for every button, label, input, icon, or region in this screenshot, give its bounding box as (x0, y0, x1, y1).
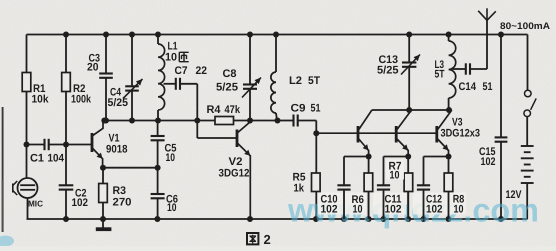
wire node B to V1 base (66, 144, 91, 146)
svg-text:10: 10 (454, 204, 464, 216)
node rail/L1 (155, 32, 161, 38)
svg-text:C9: C9 (291, 103, 306, 115)
node rail/C2 (63, 216, 69, 222)
svg-text:22: 22 (196, 65, 208, 77)
svg-text:102: 102 (72, 197, 89, 209)
wire C7 to base node drop (196, 84, 198, 121)
node rail/R7 (405, 216, 411, 222)
svg-text:C7: C7 (175, 65, 188, 77)
label R8 value (453, 194, 465, 216)
node V1 collector (101, 118, 107, 124)
svg-text:102: 102 (321, 204, 338, 216)
inductor L2 (271, 35, 320, 121)
svg-text:10: 10 (167, 202, 177, 214)
svg-text:80~100mA: 80~100mA (500, 21, 550, 32)
svg-text:47k: 47k (225, 104, 241, 116)
node rail/R8 (446, 216, 452, 222)
switch S (524, 90, 536, 116)
node V3a emitter (366, 154, 372, 160)
wire V3b emitter stub to C11 (384, 156, 409, 158)
wire battery to ground rail (526, 183, 528, 219)
svg-text:20: 20 (87, 62, 99, 74)
wire antenna feed (486, 20, 488, 69)
svg-text:5/25: 5/25 (216, 82, 238, 94)
node B (R2/C1/C2/V1-base) (63, 142, 69, 148)
node C3/tank (103, 118, 109, 124)
node V3c collector / L3 (446, 107, 452, 113)
node rail/C3 (103, 32, 109, 38)
node R4 left / C7 (194, 118, 200, 124)
svg-text:5/25: 5/25 (377, 65, 399, 77)
node V3b emitter (405, 154, 411, 160)
svg-text:5/25: 5/25 (108, 97, 129, 109)
transistor V3c (437, 110, 452, 157)
node L2 bottom / C9 (275, 118, 281, 124)
node V3b collector / C13 (406, 107, 412, 113)
capacitor C9 (278, 103, 321, 134)
resistor R1 (22, 35, 49, 145)
svg-text:3DG12: 3DG12 (219, 168, 250, 180)
node rail/C11 (381, 216, 387, 222)
svg-text:R3: R3 (113, 185, 127, 197)
label R7 value (389, 161, 402, 182)
node rail/R5 (313, 216, 319, 222)
wire V1 collector tank node line (103, 120, 278, 122)
node rail/R6 (366, 216, 372, 222)
microphone MIC (13, 145, 43, 220)
svg-text:V2: V2 (229, 156, 243, 168)
svg-text:100k: 100k (71, 94, 92, 106)
node rail/C13 (406, 32, 412, 38)
wire top supply rail (27, 34, 528, 36)
capacitor C14 (453, 63, 493, 93)
node rail/R3 (100, 216, 106, 222)
antenna (478, 11, 487, 20)
battery GB 12V (506, 146, 534, 201)
wire V3a emitter stub to C10 (344, 156, 369, 158)
svg-text:270: 270 (113, 197, 132, 209)
capacitor C5 (151, 121, 177, 168)
transistor V3a (358, 110, 372, 157)
label R6 value (352, 194, 365, 216)
svg-text:C1: C1 (30, 153, 44, 165)
wire V1 emitter to C5/C6 tap (103, 167, 158, 169)
watermark (0, 192, 539, 247)
node rail/L3 (446, 32, 452, 38)
capacitor C2 (59, 145, 88, 220)
svg-text:5T: 5T (308, 75, 320, 87)
label C11 value (385, 194, 402, 216)
variable capacitor C4 (108, 35, 143, 121)
wire switch to battery (526, 117, 528, 146)
ground (96, 219, 112, 231)
node C9 out / R5 / base bus (313, 130, 319, 136)
node rail/C4 (129, 32, 135, 38)
wire bottom ground rail (27, 218, 528, 220)
svg-text:51: 51 (311, 103, 321, 115)
node rail/R2 (63, 32, 69, 38)
resistor R6 (364, 157, 373, 220)
node C5/C6/V1-emitter (155, 165, 161, 171)
svg-text:10: 10 (390, 170, 400, 182)
svg-text:R4: R4 (207, 104, 222, 116)
caption figure glyph 图 (247, 233, 258, 244)
node rail/V2 emitter (247, 216, 253, 222)
capacitor C12 (417, 185, 430, 219)
svg-text:104: 104 (48, 153, 65, 165)
svg-text:10: 10 (165, 52, 177, 64)
svg-text:3DG12x3: 3DG12x3 (441, 128, 481, 140)
node L1/tank/C5 (155, 118, 161, 124)
svg-text:MIC: MIC (28, 199, 43, 209)
node rail/C12 (421, 216, 427, 222)
svg-text:10: 10 (166, 152, 176, 164)
capacitor C10 (337, 185, 350, 219)
wire drop to V2 base (196, 121, 198, 139)
svg-text:C14: C14 (459, 81, 477, 93)
svg-text:10k: 10k (32, 94, 50, 106)
wire V3 collector rail (372, 109, 449, 111)
node V2 collector / R4 right / C8 (247, 118, 253, 124)
capacitor C6 (151, 168, 178, 219)
svg-text:10: 10 (353, 204, 363, 216)
resistor R7 (404, 157, 413, 220)
node A (R1/MIC/C1 junction) (24, 142, 30, 148)
wire to switch (527, 35, 529, 91)
resistor R2 (62, 35, 92, 145)
transistor V3b (396, 110, 411, 157)
svg-text:5T: 5T (435, 69, 445, 81)
inductor L3 (435, 35, 456, 111)
node rail/C10 (341, 216, 347, 222)
svg-text:L2: L2 (289, 75, 302, 87)
node V3c emitter (446, 154, 452, 160)
svg-text:102: 102 (481, 156, 496, 168)
node rail/C15 (498, 32, 504, 38)
variable capacitor C8 (216, 35, 261, 121)
resistor R5 (293, 133, 321, 219)
wire V3c emitter stub to C12 (424, 156, 449, 158)
scan edge artifact left (2, 107, 4, 232)
capacitor C11 (377, 185, 390, 219)
transistor V1 (92, 121, 128, 168)
inductor L1 (158, 35, 178, 121)
node ground rail/C15 (498, 216, 504, 222)
resistor R3 (99, 168, 132, 219)
capacitor C3 (87, 35, 113, 121)
label C12 value (426, 194, 443, 216)
svg-text:51: 51 (483, 81, 493, 93)
transistor V2 (219, 122, 251, 219)
resistor R8 (444, 157, 453, 220)
capacitor C7 (164, 65, 208, 90)
wire V3 base bus (316, 132, 437, 134)
node rail/L2 (273, 32, 279, 38)
svg-text:2: 2 (264, 232, 271, 246)
node rail/C8 (247, 32, 253, 38)
node V1 emitter (100, 165, 106, 171)
capacitor C1 (27, 139, 67, 165)
label C10 value (321, 194, 338, 216)
node rail/C6 (154, 216, 160, 222)
variable capacitor C13 (377, 35, 420, 111)
svg-text:102: 102 (385, 204, 402, 216)
L1 value 10turns glyph (179, 52, 188, 61)
resistor R4 (207, 104, 241, 125)
svg-text:9018: 9018 (106, 144, 128, 156)
capacitor C15 (479, 35, 507, 220)
svg-text:C8: C8 (223, 68, 237, 80)
svg-text:102: 102 (426, 204, 443, 216)
node C4/tank (129, 118, 135, 124)
